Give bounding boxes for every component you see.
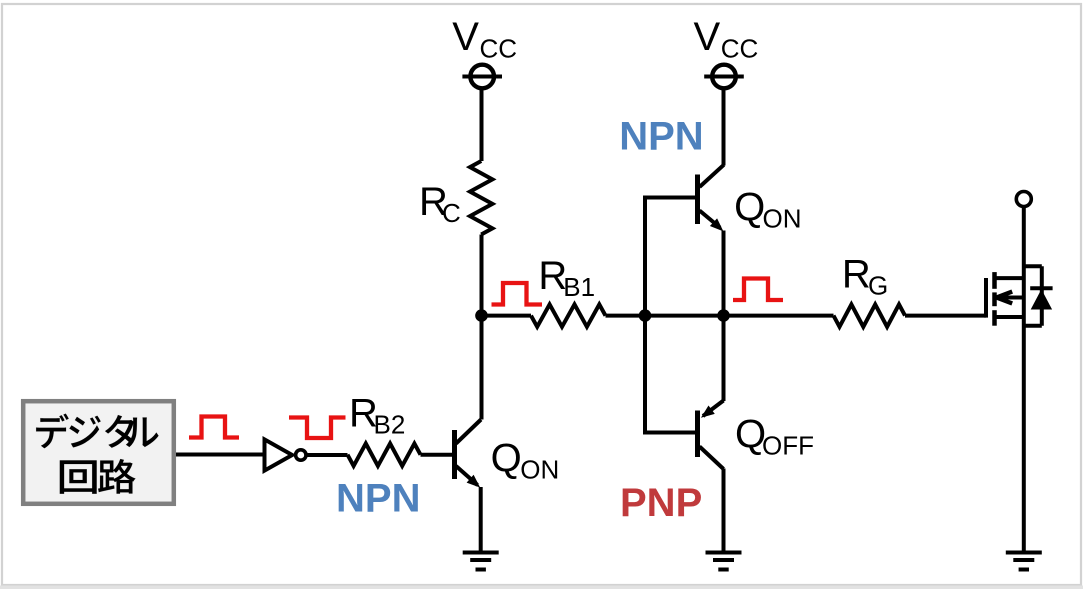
node A (475, 309, 488, 322)
transistor Q1 emitter line (456, 466, 478, 485)
svg-text:NPN: NPN (619, 115, 703, 159)
drain terminal circle (1016, 192, 1031, 207)
wire node C to Q3 emitter (722, 316, 726, 401)
wire RB2 to Q1 base (421, 453, 453, 457)
MOSFET M1 body tap with arrow (997, 296, 1024, 300)
MOSFET M1 drain tap (995, 276, 1024, 280)
wire RG to MOSFET gate (905, 314, 986, 318)
svg-text:Q: Q (734, 185, 765, 229)
wire base tie (Q2 base to Q3 base through node B) (645, 198, 698, 433)
wire node C to RG (724, 314, 834, 318)
transistor Q2 emitter line (700, 211, 721, 228)
MOSFET M1 channel segments (992, 272, 997, 289)
transistor Q3 emitter line (PNP arrow toward base) (703, 401, 724, 417)
pulse waveform 3 (492, 283, 543, 305)
ground 1 (463, 551, 499, 555)
resistor RB2 (348, 444, 421, 466)
wire Q1 emitter to ground (479, 487, 483, 553)
wire box to inverter (176, 453, 263, 457)
svg-text:PNP: PNP (620, 481, 702, 525)
svg-text:V: V (694, 15, 721, 59)
transistor Q2 base bar (695, 175, 700, 225)
wire node A to RB1 (482, 314, 532, 318)
svg-text:CC: CC (721, 34, 759, 64)
MOSFET M1 gate bar (984, 278, 988, 318)
transistor Q3 base bar (695, 411, 700, 458)
resistor RG (834, 304, 906, 326)
svg-text:CC: CC (480, 34, 518, 64)
svg-text:G: G (868, 271, 888, 301)
svg-text:OFF: OFF (762, 430, 814, 460)
wire node B to node C (645, 314, 724, 318)
svg-text:NPN: NPN (336, 477, 420, 521)
svg-text:C: C (442, 198, 461, 228)
svg-text:ON: ON (520, 454, 559, 484)
body diode D1 triangle (1031, 289, 1052, 309)
svg-text:B1: B1 (563, 272, 595, 302)
resistor RC (470, 161, 492, 235)
node C (717, 309, 730, 322)
transistor Q3 collector line (700, 447, 724, 470)
svg-text:B2: B2 (374, 410, 406, 440)
svg-text:R: R (842, 253, 871, 297)
wire inverter to RB2 (306, 453, 347, 457)
transistor Q1 collector line (456, 420, 481, 444)
transistor Q2 collector line (700, 165, 724, 187)
resistor RB1 (531, 304, 606, 326)
pulse waveform 4 (733, 279, 783, 301)
digital circuit box (23, 401, 174, 504)
wire source to ground (1022, 300, 1026, 553)
wire RB1 to node B (606, 314, 646, 318)
transistor Q1 base bar (452, 430, 457, 479)
ground 3 (1006, 551, 1042, 555)
ground 2 (706, 551, 742, 555)
wire Q3 collector to ground (722, 469, 726, 553)
wire drain terminal to MOSFET (1022, 207, 1026, 300)
node B (639, 309, 652, 322)
svg-text:V: V (452, 15, 479, 59)
wire Q1 collector to node A (480, 316, 484, 420)
pulse waveform 2 (inverted) (289, 418, 346, 439)
wire Q2 emitter to node C (722, 231, 726, 316)
Vcc supply 1 (470, 65, 494, 89)
svg-text:ON: ON (763, 203, 802, 233)
body diode D1 branch vertical (1040, 266, 1044, 326)
pulse waveform 1 (189, 417, 239, 438)
body diode D1 branch top wire (1024, 264, 1042, 268)
wire RC to node A (480, 235, 484, 316)
inverter U1 (265, 439, 293, 470)
wire Vcc1 to RC (480, 88, 484, 161)
wire Vcc2 to Q2 collector (722, 88, 726, 165)
Vcc supply 2 (712, 65, 736, 89)
label digital circuit (デジタル回路) (36, 414, 158, 494)
svg-text:Q: Q (491, 436, 522, 480)
body diode D1 branch bottom wire (1024, 324, 1042, 328)
MOSFET M1 source tap (995, 315, 1024, 319)
body diode D1 cathode bar (1030, 286, 1052, 290)
